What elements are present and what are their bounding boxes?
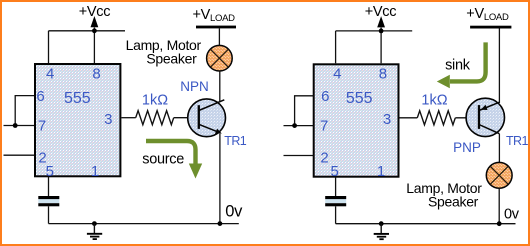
wire collector to lamp right — [498, 134, 500, 163]
pin 6 label right — [321, 88, 329, 105]
Vcc rail wire right — [336, 30, 413, 32]
svg-text:+Vcc: +Vcc — [79, 4, 110, 20]
resistor 1k zigzag right — [417, 111, 455, 125]
wire pin3 to resistor — [121, 117, 135, 119]
svg-text:3: 3 — [383, 111, 391, 128]
wire pin8 to Vcc rail — [93, 28, 95, 64]
lamp load left — [207, 45, 233, 71]
svg-text:4: 4 — [46, 66, 54, 83]
sink arrow — [437, 42, 486, 88]
wire pin6 — [15, 96, 34, 126]
wire lamp to 0v right — [498, 188, 500, 224]
svg-text:3: 3 — [104, 111, 112, 128]
Lamp Motor Speaker label right — [406, 180, 482, 210]
svg-text:2: 2 — [320, 150, 328, 167]
svg-text:+Vcc: +Vcc — [365, 4, 396, 20]
resistor 1k zigzag left — [136, 111, 174, 125]
ground symbol left — [87, 224, 102, 240]
svg-text:Speaker: Speaker — [428, 194, 479, 210]
pin 7 label — [38, 117, 46, 134]
source label — [142, 152, 184, 168]
capacitor C1 — [38, 196, 59, 206]
svg-text:6: 6 — [321, 88, 329, 105]
svg-text:1: 1 — [91, 163, 99, 180]
svg-text:0v: 0v — [504, 207, 520, 223]
svg-text:NPN: NPN — [180, 79, 209, 94]
svg-text:555: 555 — [346, 90, 373, 107]
source arrow — [146, 141, 202, 179]
wire capacitor to 0v — [48, 206, 50, 223]
pin 2 label right — [320, 150, 328, 167]
capacitor C2 — [325, 196, 346, 206]
resistor 1k value label right — [421, 93, 447, 109]
junction Vcc — [92, 28, 97, 33]
junction lamp / 0v right — [497, 221, 502, 226]
Lamp Motor Speaker label left — [126, 37, 202, 67]
Vcc rail wire — [49, 30, 126, 32]
svg-text:555: 555 — [64, 90, 91, 107]
pin 4 label — [46, 66, 54, 83]
pin 7 label right — [320, 117, 328, 134]
svg-text:sink: sink — [445, 57, 471, 73]
pin 1 label — [91, 163, 99, 180]
svg-text:8: 8 — [379, 66, 387, 83]
wire pin2 — [4, 154, 35, 156]
pin 1 label right — [377, 163, 385, 180]
svg-text:7: 7 — [320, 117, 328, 134]
0v label left — [225, 203, 243, 221]
wire pin7 right — [284, 125, 314, 127]
PNP label — [453, 140, 481, 155]
wire pin8 to Vcc rail right — [380, 28, 382, 64]
pin 2 label — [38, 150, 46, 167]
svg-text:8: 8 — [92, 66, 100, 83]
+Vcc label right — [365, 4, 396, 20]
wire pin5 to capacitor right — [335, 177, 337, 196]
svg-text:4: 4 — [333, 66, 341, 83]
NPN label — [180, 79, 209, 94]
svg-text:5: 5 — [331, 163, 339, 180]
svg-text:5: 5 — [46, 163, 54, 180]
svg-text:TR1: TR1 — [224, 134, 246, 148]
ground symbol right — [374, 224, 389, 240]
svg-text:7: 7 — [38, 117, 46, 134]
svg-text:1: 1 — [377, 163, 385, 180]
pin 4 label right — [333, 66, 341, 83]
wire pin3 to resistor right — [400, 117, 418, 119]
junction Vcc right — [379, 29, 384, 34]
IC U2 label 555 — [346, 90, 373, 107]
svg-text:source: source — [142, 152, 184, 168]
+Vload label left — [193, 7, 236, 24]
wire emitter to 0v rail — [219, 134, 221, 224]
pin 5 label — [46, 163, 54, 180]
0v rail right — [336, 223, 516, 225]
IC U1 555 body — [35, 64, 120, 176]
+Vcc label — [79, 4, 110, 20]
wire pin4 to Vcc rail right — [335, 31, 337, 63]
svg-text:Speaker: Speaker — [146, 51, 197, 67]
TR1 label left — [224, 134, 246, 148]
wire resistor to base right — [455, 117, 478, 119]
svg-text:1kΩ: 1kΩ — [421, 93, 447, 109]
wire pin2 right — [284, 155, 314, 157]
pin 8 label — [92, 66, 100, 83]
pin 8 label right — [379, 66, 387, 83]
junction emitter / 0v — [218, 221, 223, 226]
wire lamp to collector — [219, 71, 221, 102]
junction pin6/pin7 right — [292, 123, 297, 128]
TR1 label right — [506, 134, 528, 148]
Vload rail left — [196, 26, 236, 29]
IC U1 label 555 — [64, 90, 91, 107]
0v label right — [504, 207, 520, 223]
pin 6 label — [36, 88, 44, 105]
pin 3 label — [104, 111, 112, 128]
svg-text:PNP: PNP — [453, 140, 481, 155]
pin 3 label right — [383, 111, 391, 128]
wire resistor to base — [174, 117, 199, 119]
wire pin4 to Vcc rail — [48, 31, 50, 63]
Vload rail right — [470, 26, 511, 29]
0v rail left — [49, 223, 239, 225]
wire Vload to lamp — [218, 28, 220, 45]
sink label — [445, 57, 471, 73]
junction pin1 / 0v right — [379, 221, 384, 226]
wire pin6 right — [295, 96, 314, 126]
transistor TR1 PNP body — [466, 98, 504, 136]
wire Vload to emitter right — [498, 29, 500, 104]
+Vload label right — [466, 6, 509, 23]
junction pin1 / 0v — [92, 221, 97, 226]
IC U2 555 body — [314, 64, 399, 176]
svg-text:0v: 0v — [225, 203, 243, 221]
svg-text:TR1: TR1 — [506, 134, 528, 148]
pin 5 label right — [331, 163, 339, 180]
wire pin5 to capacitor — [48, 176, 50, 196]
svg-text:1kΩ: 1kΩ — [142, 93, 168, 109]
junction pin6/pin7 — [13, 123, 18, 128]
Vcc arrow right — [377, 16, 385, 27]
svg-text:6: 6 — [36, 88, 44, 105]
resistor 1k value label left — [142, 93, 168, 109]
wire capacitor to 0v right — [335, 206, 337, 223]
Vcc arrow — [91, 16, 99, 27]
lamp load right — [486, 162, 512, 188]
wire pin7 — [4, 125, 35, 127]
transistor TR1 NPN body — [188, 99, 226, 137]
